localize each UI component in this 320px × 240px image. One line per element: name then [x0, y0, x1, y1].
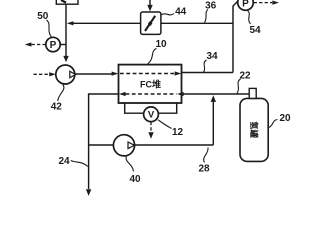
svg-text:50: 50	[37, 11, 49, 22]
svg-text:24: 24	[58, 156, 70, 167]
svg-text:34: 34	[206, 51, 218, 62]
svg-text:10: 10	[155, 39, 167, 50]
svg-text:22: 22	[239, 70, 251, 81]
svg-text:36: 36	[205, 0, 217, 11]
svg-text:42: 42	[51, 101, 63, 112]
svg-text:44: 44	[175, 7, 187, 18]
svg-text:FC堆: FC堆	[140, 78, 161, 89]
svg-text:40: 40	[129, 174, 141, 185]
svg-text:V: V	[148, 110, 155, 121]
svg-text:12: 12	[172, 127, 184, 138]
svg-text:P: P	[50, 40, 57, 51]
svg-text:28: 28	[198, 164, 210, 175]
svg-text:54: 54	[249, 25, 261, 36]
svg-text:P: P	[242, 0, 249, 9]
svg-text:氢罐: 氢罐	[249, 121, 259, 138]
svg-text:20: 20	[279, 113, 291, 124]
